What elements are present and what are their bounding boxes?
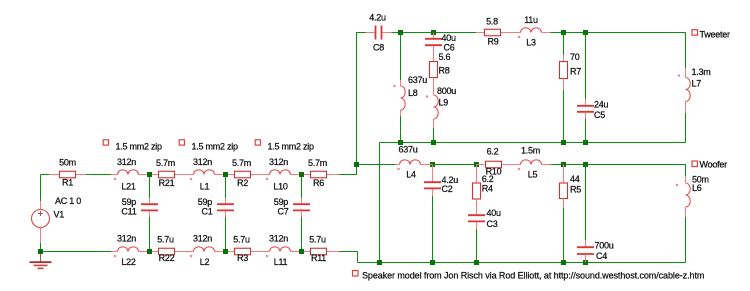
svg-text:5.7m: 5.7m: [156, 158, 175, 168]
capacitor C11 bottom wire: [149, 217, 151, 252]
resistor R1 body: [60, 171, 76, 178]
svg-text:1.5 mm2 zip: 1.5 mm2 zip: [268, 142, 315, 152]
junction tweeter bottom x=433.5: [431, 140, 436, 145]
capacitor C7 bottom wire: [301, 217, 303, 252]
inductor L9 bottom lead: [433, 119, 435, 128]
inductor L5 polarity mark: [518, 168, 521, 171]
capacitor C3 top lead: [476, 199, 478, 215]
junction cable top x=225.5: [223, 172, 228, 177]
ground bar 3: [38, 267, 44, 269]
capacitor C1 top lead: [225, 198, 227, 204]
voltage source V1 top lead: [40, 201, 42, 210]
inductor L10 polarity mark: [266, 178, 269, 181]
svg-text:40u: 40u: [442, 33, 457, 43]
junction woofer top x=432.5: [430, 162, 435, 167]
svg-text:R11: R11: [311, 253, 326, 263]
junction tweeter bottom x=563.5: [561, 140, 566, 145]
svg-text:L9: L9: [439, 98, 449, 108]
wire woofer rail from input junction: [357, 164, 396, 166]
svg-text:R2: R2: [237, 178, 248, 188]
wire common bottom rail: [358, 262, 686, 264]
capacitor C2 bottom lead: [432, 189, 434, 196]
junction ground node: [38, 249, 43, 254]
inductor L3 leads: [513, 32, 521, 34]
capacitor C5 plates: [577, 105, 594, 107]
wire R5 node to C4 node: [564, 164, 586, 166]
inductor L8 bottom wire: [400, 116, 402, 143]
junction cable top x=301.5: [299, 172, 304, 177]
inductor L8 top wire: [400, 33, 402, 81]
resistor R8 top lead: [433, 46, 435, 62]
capacitor C7 top wire: [301, 175, 303, 199]
svg-text:5.6: 5.6: [439, 52, 451, 62]
inductor L22 polarity mark: [114, 255, 117, 258]
capacitor C11 bottom lead: [149, 211, 151, 217]
svg-text:5.7m: 5.7m: [232, 158, 251, 168]
inductor L22 coil: [118, 247, 139, 252]
junction cable top x=149.5: [147, 172, 152, 177]
inductor L11 leads: [263, 251, 270, 253]
wire cable bottom rail after R11: [336, 251, 358, 253]
junction cable bottom x=301.5: [299, 249, 304, 254]
svg-text:R7: R7: [570, 67, 581, 77]
inductor L9 bottom wire: [433, 128, 435, 143]
inductor L11 polarity mark: [266, 255, 269, 258]
inductor L10 leads: [263, 174, 270, 176]
svg-text:1.3m: 1.3m: [692, 67, 711, 77]
resistor R4 body: [473, 183, 481, 199]
svg-text:L22: L22: [121, 257, 136, 267]
svg-text:R5: R5: [570, 185, 581, 195]
svg-text:5.7u: 5.7u: [157, 235, 174, 245]
svg-text:C1: C1: [201, 207, 212, 217]
wire C6 node to R9: [434, 32, 477, 34]
junction tweeter bottom x=400.5: [398, 140, 403, 145]
capacitor C5 top lead: [585, 99, 587, 105]
wire V1 bottom to ground node: [40, 243, 42, 252]
marker square Woofer: [692, 161, 698, 167]
capacitor C1 top wire: [225, 175, 227, 199]
junction common bottom x=476.5: [474, 260, 479, 265]
capacitor C4 top wire: [585, 165, 587, 241]
inductor L7 coil: [686, 78, 691, 102]
svg-text:L4: L4: [406, 170, 416, 180]
capacitor C7 top lead: [301, 198, 303, 204]
junction woofer top x=563.5: [561, 162, 566, 167]
junction input riser: [354, 162, 359, 167]
inductor L8 bottom lead: [400, 110, 402, 116]
svg-text:700u: 700u: [595, 241, 614, 251]
wire C5 node to tweeter right corner: [586, 32, 686, 34]
junction tweeter top x=563.5: [561, 30, 566, 35]
svg-text:C8: C8: [373, 43, 384, 53]
inductor L21 polarity mark: [114, 178, 117, 181]
resistor R9 body: [485, 29, 501, 36]
svg-text:R3: R3: [237, 253, 248, 263]
svg-text:312n: 312n: [117, 157, 136, 167]
capacitor C8 right lead: [383, 32, 392, 34]
capacitor C2 plates: [424, 181, 441, 183]
svg-text:5.7u: 5.7u: [309, 235, 326, 245]
resistor R3 leads: [225, 251, 235, 253]
svg-text:R8: R8: [439, 66, 450, 76]
svg-text:C2: C2: [442, 184, 453, 194]
capacitor C2 bottom wire: [432, 196, 434, 263]
wire L4 to C2 node: [421, 164, 433, 166]
inductor L6 polarity mark: [676, 184, 679, 187]
svg-text:R22: R22: [159, 253, 175, 263]
junction tweeter top x=400.5: [398, 30, 403, 35]
inductor L8 top lead: [400, 80, 402, 86]
svg-text:5.7m: 5.7m: [308, 158, 327, 168]
junction common bottom x=432.5: [430, 260, 435, 265]
junction common bottom x=379.5: [377, 260, 382, 265]
wire tweeter-bottom riser to common bottom: [379, 143, 381, 263]
inductor L6 bottom lead: [685, 207, 687, 217]
capacitor C4 plates: [577, 246, 594, 248]
inductor L1 leads: [187, 174, 194, 176]
svg-text:L2: L2: [200, 257, 210, 267]
svg-text:L6: L6: [692, 183, 702, 193]
svg-text:1.5m: 1.5m: [521, 146, 540, 156]
svg-text:R21: R21: [159, 178, 175, 188]
capacitor C8 plates: [375, 26, 377, 40]
inductor L4 coil: [400, 160, 421, 165]
svg-text:59p: 59p: [274, 197, 289, 207]
inductor L5 leads: [513, 164, 521, 166]
capacitor C4 bottom lead: [585, 255, 587, 263]
marker square zip 1: [103, 140, 108, 145]
wire tweeter top rail segment C8 left: [357, 32, 367, 34]
junction woofer top x=585.5: [583, 162, 588, 167]
resistor R8 body: [430, 62, 438, 78]
capacitor C8 left lead: [366, 32, 375, 34]
junction woofer top x=476.5: [474, 162, 479, 167]
svg-text:C6: C6: [444, 43, 455, 53]
svg-text:C11: C11: [121, 207, 136, 217]
wire L8 node to C6 node: [401, 32, 434, 34]
junction common bottom x=563.5: [561, 260, 566, 265]
capacitor C1 bottom lead: [225, 211, 227, 217]
inductor L22 leads: [111, 251, 118, 253]
svg-text:5.8: 5.8: [486, 17, 498, 27]
resistor R5 body: [560, 183, 568, 199]
ground bar 2: [34, 264, 48, 266]
inductor L10 coil: [270, 170, 291, 175]
inductor L6 top lead: [685, 176, 687, 183]
capacitor C11 plates: [141, 203, 158, 205]
capacitor C11 top wire: [149, 175, 151, 199]
svg-text:40u: 40u: [487, 208, 502, 218]
svg-text:1.5 mm2 zip: 1.5 mm2 zip: [192, 142, 239, 152]
resistor R22 leads: [149, 251, 159, 253]
wire R7 node to C5 node: [564, 32, 586, 34]
capacitor C1 bottom wire: [225, 217, 227, 252]
resistor R7 wire from rail: [563, 33, 565, 56]
ground lead: [40, 252, 42, 262]
junction tweeter bottom x=585.5: [583, 140, 588, 145]
resistor R10 body: [486, 161, 502, 168]
inductor L5 coil: [521, 160, 542, 165]
marker square zip 2: [179, 140, 184, 145]
svg-text:R4: R4: [482, 184, 493, 194]
inductor L7 top lead: [685, 68, 687, 78]
svg-text:C3: C3: [487, 219, 498, 229]
svg-text:C4: C4: [596, 251, 607, 261]
svg-text:Speaker model from Jon Risch v: Speaker model from Jon Risch via Rod Ell…: [362, 270, 704, 280]
inductor L21 leads: [111, 174, 118, 176]
resistor R21 leads: [149, 174, 159, 176]
svg-text:L1: L1: [200, 182, 210, 192]
wire cable bottom rail from ground: [41, 251, 112, 253]
wire L5 to R5 node: [551, 164, 564, 166]
svg-text:6.2: 6.2: [482, 174, 494, 184]
ground bar 1: [30, 261, 52, 263]
capacitor C3 bottom lead: [476, 222, 478, 229]
inductor L9 coil: [434, 95, 439, 119]
capacitor C6 plates: [425, 38, 442, 40]
svg-text:312n: 312n: [269, 234, 288, 244]
voltage source V1 plus sign: [38, 211, 43, 216]
inductor L11 coil: [270, 247, 291, 252]
svg-text:L5: L5: [528, 170, 538, 180]
marker square note: [353, 271, 359, 277]
capacitor C7 plates: [293, 203, 310, 205]
resistor R3 body: [235, 248, 251, 255]
capacitor C1 plates: [217, 203, 234, 205]
wire woofer right vertical below L6: [685, 217, 687, 263]
svg-text:L3: L3: [526, 38, 536, 48]
inductor L4 polarity mark: [397, 168, 400, 171]
inductor L2 leads: [187, 251, 194, 253]
svg-text:312n: 312n: [117, 234, 136, 244]
wire R1 to cable section: [86, 174, 111, 176]
capacitor C2 top lead: [432, 165, 434, 182]
resistor R4 top lead: [476, 165, 478, 184]
resistor R5 bottom lead: [563, 199, 565, 209]
svg-text:C5: C5: [594, 110, 605, 120]
svg-text:R1: R1: [62, 178, 73, 188]
svg-text:800u: 800u: [437, 86, 456, 96]
wire C2 node to R4 node: [433, 164, 477, 166]
inductor L21 coil: [118, 170, 139, 175]
svg-text:L8: L8: [408, 88, 418, 98]
inductor L9 top lead: [433, 78, 435, 96]
inductor L3 coil: [521, 28, 542, 33]
resistor R11 body: [311, 248, 327, 255]
svg-text:637u: 637u: [398, 145, 417, 155]
svg-text:C7: C7: [277, 207, 288, 217]
resistor R6 body: [311, 171, 327, 178]
wire tweeter right vertical below L7: [685, 113, 687, 143]
marker square Tweeter: [692, 30, 698, 36]
resistor R2 body: [235, 171, 251, 178]
svg-text:44: 44: [570, 174, 580, 184]
svg-text:59p: 59p: [122, 197, 137, 207]
resistor R11 leads: [301, 251, 311, 253]
inductor L8 polarity mark: [393, 85, 396, 88]
wire top rail into R1: [41, 174, 50, 176]
inductor L1 polarity mark: [190, 178, 193, 181]
voltage source V1 bottom lead: [40, 228, 42, 244]
inductor L9 polarity mark: [426, 95, 429, 98]
inductor L7 bottom lead: [685, 102, 687, 114]
capacitor C4 top lead: [585, 240, 587, 247]
wire C4 node to woofer right corner: [586, 164, 686, 166]
inductor L6 coil: [686, 183, 691, 207]
resistor R7 bottom wire: [563, 90, 565, 143]
svg-text:Tweeter: Tweeter: [700, 30, 731, 40]
svg-text:312n: 312n: [193, 157, 212, 167]
inductor L4 leads: [396, 164, 400, 166]
svg-text:24u: 24u: [594, 100, 609, 110]
inductor L3 polarity mark: [518, 36, 521, 39]
inductor L8 coil: [401, 86, 406, 110]
svg-text:1.5 mm2 zip: 1.5 mm2 zip: [116, 142, 163, 152]
svg-text:R6: R6: [313, 178, 324, 188]
svg-text:70: 70: [570, 52, 580, 62]
svg-text:AC 1 0: AC 1 0: [55, 196, 81, 206]
resistor R7 bottom lead: [563, 79, 565, 91]
wire step down to common bottom rail: [357, 252, 359, 263]
resistor R1 leads: [49, 174, 60, 176]
capacitor C11 top lead: [149, 198, 151, 204]
inductor L7 polarity mark: [678, 74, 681, 77]
inductor L2 coil: [194, 247, 215, 252]
svg-text:L7: L7: [692, 79, 702, 89]
wire riser to tweeter input: [356, 32, 358, 175]
junction common bottom x=585.5: [583, 260, 588, 265]
voltage source V1 circle: [32, 210, 50, 228]
junction cable bottom x=149.5: [147, 249, 152, 254]
resistor R10 leads: [477, 164, 485, 166]
svg-text:11u: 11u: [524, 15, 538, 25]
resistor R21 body: [159, 171, 175, 178]
capacitor C5 bottom lead: [585, 112, 587, 119]
svg-text:V1: V1: [54, 210, 65, 220]
wire tweeter bottom rail: [380, 142, 686, 144]
wire C8 to L8 node: [392, 32, 401, 34]
marker square zip 3: [255, 140, 260, 145]
svg-text:4.2u: 4.2u: [369, 13, 386, 23]
svg-text:L10: L10: [273, 182, 288, 192]
svg-text:59p: 59p: [198, 197, 213, 207]
resistor R7 body: [560, 62, 568, 79]
svg-text:6.2: 6.2: [487, 147, 499, 157]
svg-text:Woofer: Woofer: [700, 160, 728, 170]
svg-text:5.7u: 5.7u: [233, 235, 250, 245]
svg-text:312n: 312n: [269, 157, 288, 167]
svg-text:312n: 312n: [193, 234, 212, 244]
svg-text:50m: 50m: [59, 158, 76, 168]
svg-text:L11: L11: [274, 257, 288, 267]
resistor R2 leads: [225, 174, 235, 176]
resistor R5 bottom wire: [563, 208, 565, 263]
resistor R7 top lead: [563, 55, 565, 62]
inductor L1 coil: [194, 170, 215, 175]
wire from V1 to R1 (left vertical): [40, 175, 42, 202]
junction tweeter top x=585.5: [583, 30, 588, 35]
capacitor C5 top wire: [585, 33, 587, 100]
resistor R6 leads: [301, 174, 311, 176]
capacitor C5 bottom wire: [585, 119, 587, 143]
capacitor C7 bottom lead: [301, 211, 303, 217]
resistor R22 body: [159, 248, 175, 255]
capacitor C3 plates: [468, 214, 485, 216]
capacitor C6 top lead: [433, 33, 435, 39]
capacitor C3 bottom wire: [476, 229, 478, 263]
wire woofer right vertical above L6: [685, 165, 687, 177]
wire after R6 to riser: [336, 174, 358, 176]
junction cable bottom x=225.5: [223, 249, 228, 254]
resistor R5 top lead: [563, 165, 565, 184]
svg-text:637u: 637u: [408, 75, 427, 85]
resistor R9 leads: [476, 32, 485, 34]
svg-text:R9: R9: [487, 37, 498, 47]
svg-text:L21: L21: [121, 182, 136, 192]
junction tweeter top x=433.5: [431, 30, 436, 35]
inductor L2 polarity mark: [190, 255, 193, 258]
wire tweeter right vertical above L7: [685, 33, 687, 69]
wire L3 to R7 node: [551, 32, 564, 34]
